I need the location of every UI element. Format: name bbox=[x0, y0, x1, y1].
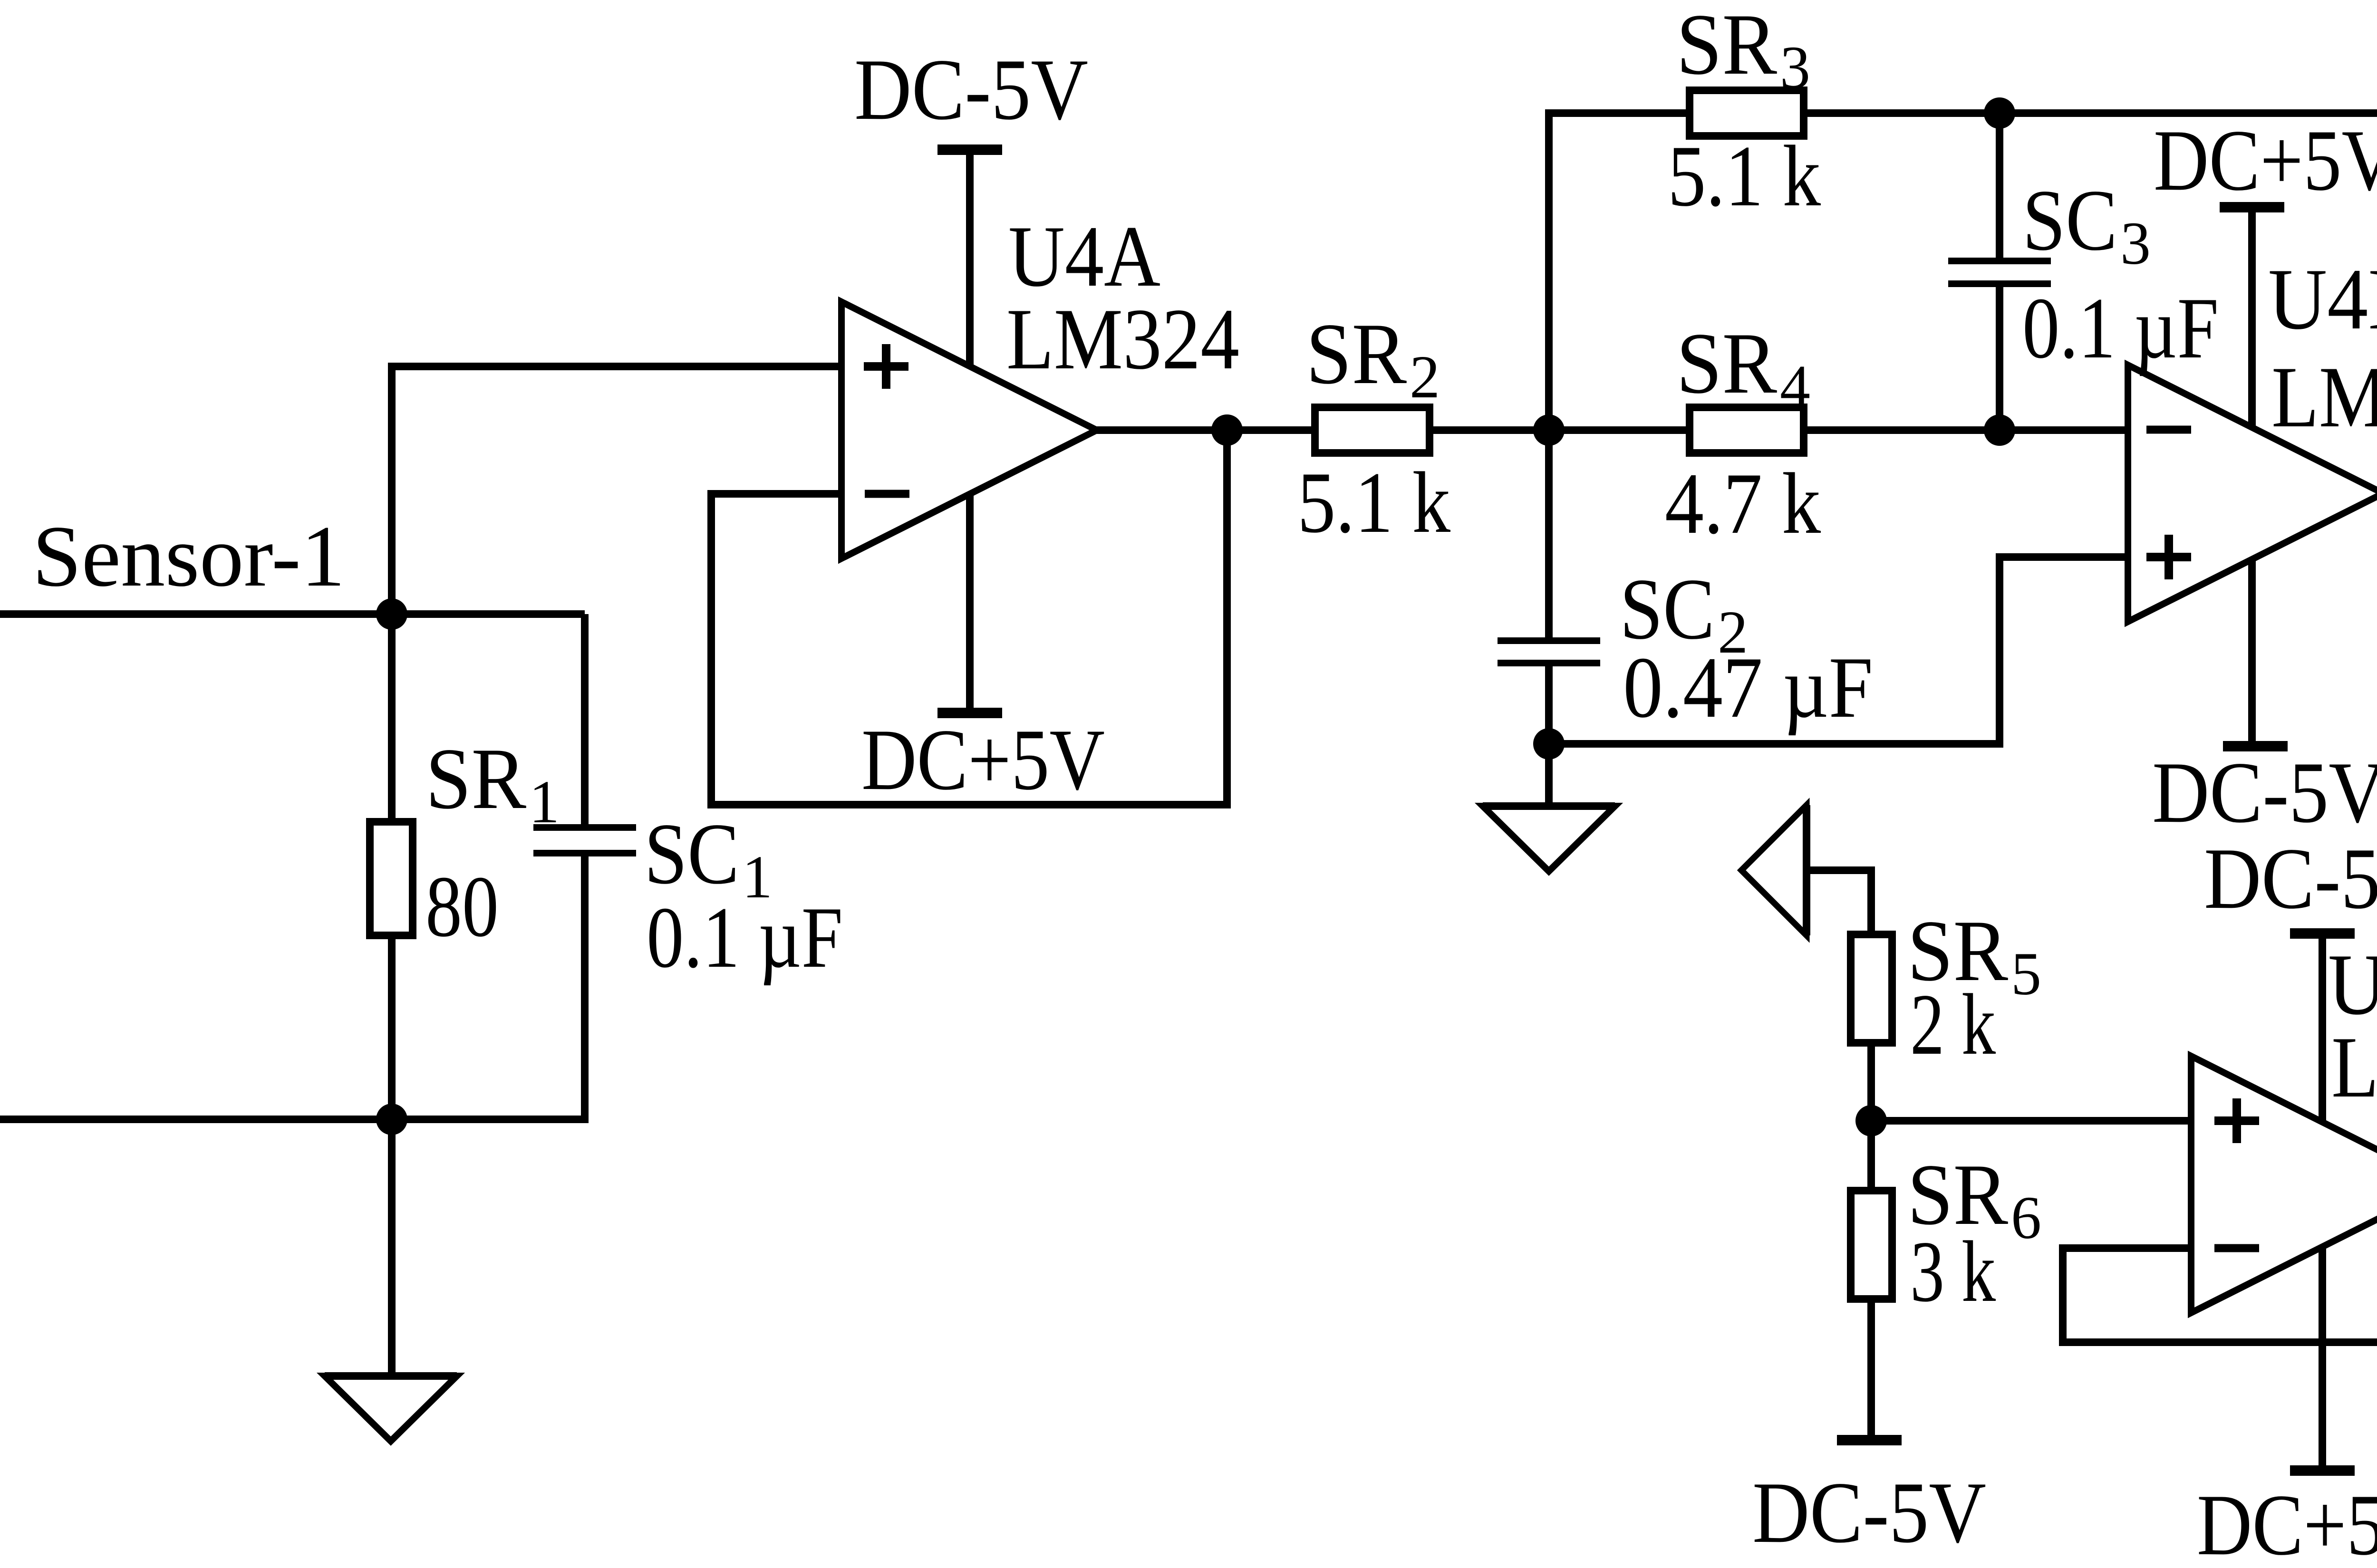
wire: ground lead below sensor return node bbox=[388, 1119, 396, 1376]
svg-text:DC+5V: DC+5V bbox=[2154, 112, 2377, 209]
svg-text:5.1 k: 5.1 k bbox=[1297, 454, 1450, 551]
wire: divider node to U4C + input bbox=[1871, 1117, 2191, 1125]
wire: left ground to SR5 top bbox=[1807, 870, 1871, 931]
svg-text:5: 5 bbox=[2011, 940, 2041, 1008]
svg-text:SC: SC bbox=[2022, 172, 2117, 269]
svg-text:Sensor-1: Sensor-1 bbox=[32, 508, 345, 605]
wire: SR2 to node A bbox=[1433, 426, 1686, 434]
svg-text:3: 3 bbox=[1780, 34, 1810, 101]
op-amp U4B plus input symbol bbox=[2146, 535, 2191, 579]
wire: SR4 output to U4B - input bbox=[1807, 426, 2128, 434]
wire: SR1 bottom lead bbox=[388, 939, 396, 1119]
svg-text:3: 3 bbox=[2120, 210, 2151, 277]
svg-text:SR: SR bbox=[1676, 315, 1777, 412]
wire: U4A V- pin from DC-5V bar bbox=[966, 150, 974, 366]
svg-text:4: 4 bbox=[1780, 353, 1810, 420]
junction: SR4/SC3 node bbox=[1984, 414, 2015, 446]
power bar DC-5V above U4A bbox=[937, 144, 1002, 155]
resistor SR3 bbox=[1690, 90, 1804, 136]
junction: SR3/SC3 top node bbox=[1984, 97, 2015, 129]
junction: node A (SR2/SR3/SR4/SC2) bbox=[1533, 414, 1565, 446]
wire: U4B V- pin to DC-5V bar bbox=[2248, 559, 2256, 746]
svg-text:DC+5V: DC+5V bbox=[861, 711, 1105, 808]
svg-text:SR: SR bbox=[1676, 0, 1777, 93]
op-amp U4B bbox=[2128, 365, 2377, 622]
op-amp U4B minus input symbol bbox=[2146, 426, 2191, 434]
svg-text:DC-5V: DC-5V bbox=[1752, 1464, 1986, 1561]
op-amp U4A minus input symbol bbox=[865, 490, 909, 498]
wire: SC2 bottom lead bbox=[1545, 666, 1553, 744]
wire: SC2 top lead from node A bbox=[1545, 430, 1553, 637]
svg-text:LM324: LM324 bbox=[2271, 348, 2377, 445]
capacitor SC3 bbox=[1948, 258, 2051, 264]
resistor SR5 bbox=[1851, 934, 1892, 1043]
svg-text:5.1 k: 5.1 k bbox=[1668, 127, 1821, 224]
wire: U4A output to SR2 bbox=[1097, 426, 1311, 434]
ground left of SR5 bbox=[1741, 805, 1807, 935]
svg-text:DC-5V: DC-5V bbox=[2152, 744, 2377, 841]
svg-text:SC: SC bbox=[644, 805, 739, 902]
wire: U4C V+ pin to DC+5V bar bbox=[2319, 1247, 2326, 1471]
svg-text:DC-5V: DC-5V bbox=[2204, 830, 2377, 927]
wire: SR3 to node B and across to output column bbox=[1807, 109, 2377, 117]
capacitor SC1 bbox=[533, 824, 636, 831]
junction: U4A output node bbox=[1211, 414, 1243, 446]
power bar DC+5V below U4C bbox=[2290, 1465, 2355, 1476]
svg-text:2 k: 2 k bbox=[1910, 976, 1996, 1073]
resistor SR1 bbox=[370, 822, 413, 935]
wire: sensor return line (bottom terminal) bbox=[0, 1116, 589, 1123]
capacitor SC2 bbox=[1498, 637, 1600, 644]
svg-text:0.1 µF: 0.1 µF bbox=[2022, 279, 2219, 376]
svg-text:6: 6 bbox=[2011, 1184, 2041, 1251]
wire: U4A V+ pin to DC+5V bar bbox=[966, 494, 974, 713]
svg-text:80: 80 bbox=[425, 858, 499, 955]
wire: SR6 bottom to DC-5V bar bbox=[1867, 1303, 1875, 1440]
resistor SR6 bbox=[1851, 1191, 1892, 1299]
ground below SC2 bbox=[1483, 806, 1615, 871]
op-amp U4C minus input symbol bbox=[2214, 1244, 2259, 1252]
power bar DC+5V above U4B bbox=[2220, 202, 2284, 212]
wire: U4C V- pin from DC-5V bar bbox=[2319, 933, 2326, 1122]
svg-text:SR: SR bbox=[425, 730, 526, 827]
power bar DC-5V below U4B bbox=[2223, 741, 2288, 751]
wire: ground lead below SC2 bbox=[1545, 744, 1553, 806]
svg-text:3 k: 3 k bbox=[1910, 1223, 1996, 1320]
wire: SC2 node to U4B + input bbox=[1549, 557, 2128, 744]
wire: SC1 branch vertical (bottom) bbox=[581, 853, 589, 1119]
wire: SR1 top lead bbox=[388, 614, 396, 818]
wire: U4B V+ pin from DC+5V bar bbox=[2248, 207, 2256, 427]
junction: SC2 bottom node bbox=[1533, 728, 1565, 760]
svg-text:1: 1 bbox=[529, 768, 560, 836]
wire: U4C negative feedback loop bbox=[2063, 1248, 2377, 1342]
power bar DC+5V below U4A bbox=[937, 708, 1002, 718]
wire: SC3 bottom lead bbox=[1996, 287, 2003, 430]
wire: Sensor-1 input line (top terminal) bbox=[0, 610, 585, 618]
resistor SR4 bbox=[1690, 407, 1804, 453]
op-amp U4A bbox=[841, 302, 1097, 558]
svg-text:LM324: LM324 bbox=[2331, 1019, 2377, 1116]
junction: sensor return node bbox=[376, 1104, 407, 1135]
junction: SR5/SR6 divider node bbox=[1855, 1105, 1887, 1136]
wire: SR5 bottom to SR6 top bbox=[1867, 1047, 1875, 1187]
svg-text:2: 2 bbox=[1410, 343, 1440, 411]
op-amp U4C plus input symbol bbox=[2214, 1098, 2259, 1143]
svg-text:0.1 µF: 0.1 µF bbox=[647, 889, 843, 986]
svg-text:U4B: U4B bbox=[2268, 250, 2377, 347]
wire: riser from sensor node to U4A + input bbox=[392, 366, 841, 614]
op-amp U4A plus input symbol bbox=[864, 344, 908, 389]
junction: sensor node bbox=[376, 598, 407, 630]
power bar DC-5V above U4C bbox=[2290, 928, 2355, 939]
op-amp U4C bbox=[2191, 1056, 2377, 1313]
wire: U4A negative feedback loop bbox=[711, 430, 1227, 805]
svg-text:0.47 µF: 0.47 µF bbox=[1623, 639, 1873, 736]
wire: SC3 top lead bbox=[1996, 113, 2003, 258]
resistor SR2 bbox=[1315, 407, 1430, 453]
wire: SC1 branch vertical (top) bbox=[581, 614, 589, 827]
svg-text:DC-5V: DC-5V bbox=[854, 41, 1088, 138]
wire: node A up to SR3 bbox=[1549, 113, 1686, 430]
power bar DC-5V below SR6 bbox=[1837, 1435, 1902, 1445]
ground below SR1 bbox=[325, 1376, 457, 1441]
svg-text:SR: SR bbox=[1306, 305, 1407, 402]
svg-text:LM324: LM324 bbox=[1006, 290, 1239, 387]
svg-text:DC+5V: DC+5V bbox=[2197, 1476, 2377, 1568]
svg-text:4.7 k: 4.7 k bbox=[1665, 455, 1821, 552]
